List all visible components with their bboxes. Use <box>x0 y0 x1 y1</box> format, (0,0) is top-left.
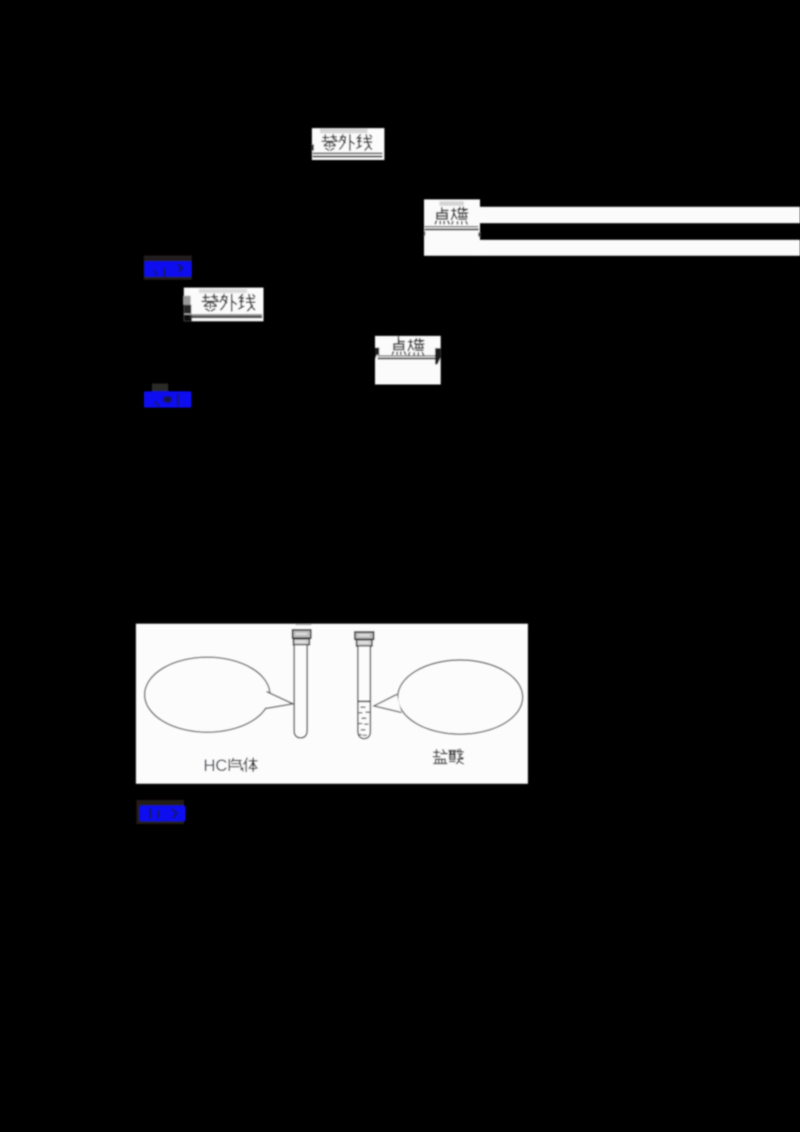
clipped glyph fragment at left edge of box 1 <box>311 144 314 150</box>
equation image 1: white background box of inline equation (O2 =UV= O3) <box>312 128 385 160</box>
blue label 3 dark surround patch <box>136 800 184 824</box>
test tube 2 stopper upper <box>355 632 374 639</box>
blue label 2 dark patch above <box>152 384 168 392</box>
dark block bottom-left corner of box <box>184 314 192 321</box>
figure: white panel with glassware <box>136 624 528 784</box>
thick reaction arrow under 紫外线 #2 <box>190 314 262 315</box>
label 紫外线 text box 2 <box>202 294 254 311</box>
vertical glyph tick top <box>398 336 399 343</box>
blue label 1 【解答】 dark surround patch <box>144 256 192 280</box>
equation image 2: white box with 点燃 over arrow <box>424 199 480 255</box>
liquid surface line in tube 2 <box>358 701 371 703</box>
gray artifact patch top of box 1 <box>320 129 368 134</box>
blue label 2 【解答】 blue text blob <box>144 391 192 407</box>
white text-line band B right of equation <box>480 240 800 256</box>
label 点燃 text (equation row 1) <box>435 207 467 224</box>
callout 2 tail pointing to test tube 2 <box>374 694 402 712</box>
test tube 2 body <box>358 647 371 739</box>
gray artifact patch top of box <box>199 289 247 293</box>
clipped product coefficient 2 right <box>435 348 441 365</box>
equation image 4: white box 点燃 #2 <box>375 336 441 385</box>
white text-line band A right of equation <box>480 207 800 223</box>
blue label 1 【解答】 blue text blob <box>144 261 191 277</box>
double-line reaction arrow under 紫外线 box 1 <box>313 153 383 155</box>
clipped glyph fragments beside arrow <box>423 231 425 235</box>
test tube 1 stopper upper <box>293 630 311 638</box>
clipped reactant fragment gray block left edge <box>183 296 191 305</box>
label 紫外线 (condition text over arrow) box 1 <box>322 135 371 151</box>
test tube 1 body <box>294 645 307 738</box>
equation image 3: white box 紫外线 #2 <box>184 288 264 322</box>
clipped reactant subscript blob left <box>375 348 379 360</box>
test tube 2 stopper lower <box>357 640 373 646</box>
callout 1 tail pointing to test tube 1 <box>266 692 294 709</box>
gray artifact patch top of 点燃 box <box>439 201 464 206</box>
double-line reaction arrow under 点燃 <box>425 226 479 227</box>
clipped reactant fragment dark block left edge <box>184 305 192 314</box>
blue label 3 blue text blob <box>140 806 186 822</box>
test tube 1 stopper lower <box>293 639 309 645</box>
label 点燃 text (equation row 2) <box>392 339 424 355</box>
callout balloon 2 (right ellipse) <box>398 660 523 734</box>
faint smudge above tube 1 at panel edge <box>296 624 312 626</box>
liquid dashes in tube 2 <box>359 707 370 736</box>
svg-text:HCl: HCl <box>204 757 232 775</box>
callout balloon 1 (left ellipse) <box>145 657 270 732</box>
double-line reaction arrow under 点燃 #2 <box>378 355 438 356</box>
label 盐酸 <box>433 749 463 764</box>
